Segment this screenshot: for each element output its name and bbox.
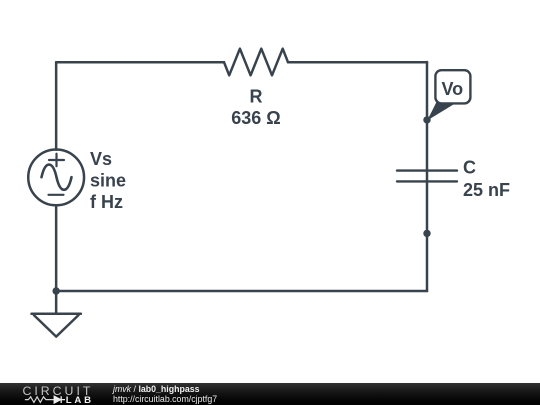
svg-text:R: R	[250, 87, 263, 107]
Vo flag box	[435, 70, 470, 103]
svg-text:C: C	[463, 158, 476, 178]
svg-text:LAB: LAB	[66, 395, 94, 405]
ground symbol triangle	[32, 314, 81, 337]
voltage source sine symbol	[42, 165, 72, 190]
svg-text:f Hz: f Hz	[90, 192, 123, 212]
junction dot ground node	[52, 287, 59, 294]
CircuitLab logo diode symbol	[54, 396, 65, 403]
svg-text:25 nF: 25 nF	[463, 180, 510, 200]
Vo flag pointer tail	[427, 102, 454, 121]
svg-text:636 Ω: 636 Ω	[231, 108, 280, 128]
svg-text:Vs: Vs	[90, 149, 112, 169]
voltage source plus sign	[49, 154, 64, 167]
footer bar	[0, 383, 540, 405]
CircuitLab logo resistor zigzag	[25, 397, 54, 403]
resistor R1 zigzag	[224, 49, 288, 76]
capacitor C1 bottom plate	[397, 180, 457, 182]
wire right vertical	[426, 62, 429, 291]
voltage source minus sign	[49, 194, 64, 196]
capacitor C1 top plate	[397, 169, 457, 171]
voltage source V1 circle	[28, 150, 84, 206]
wire top-left horizontal	[56, 61, 224, 64]
wire left vertical (below source)	[55, 205, 58, 291]
wire bottom horizontal	[56, 290, 427, 293]
junction dot below capacitor	[423, 230, 430, 237]
svg-text:Vo: Vo	[441, 79, 463, 99]
svg-text:http://circuitlab.com/cjptfg7: http://circuitlab.com/cjptfg7	[113, 394, 217, 404]
svg-text:sine: sine	[90, 171, 126, 191]
svg-text:jmvk / lab0_highpass: jmvk / lab0_highpass	[112, 384, 200, 394]
wire top-right horizontal	[288, 61, 427, 64]
wire ground stub	[55, 291, 58, 314]
wire left vertical (top)	[55, 62, 58, 150]
junction dot Vo node	[423, 116, 430, 123]
